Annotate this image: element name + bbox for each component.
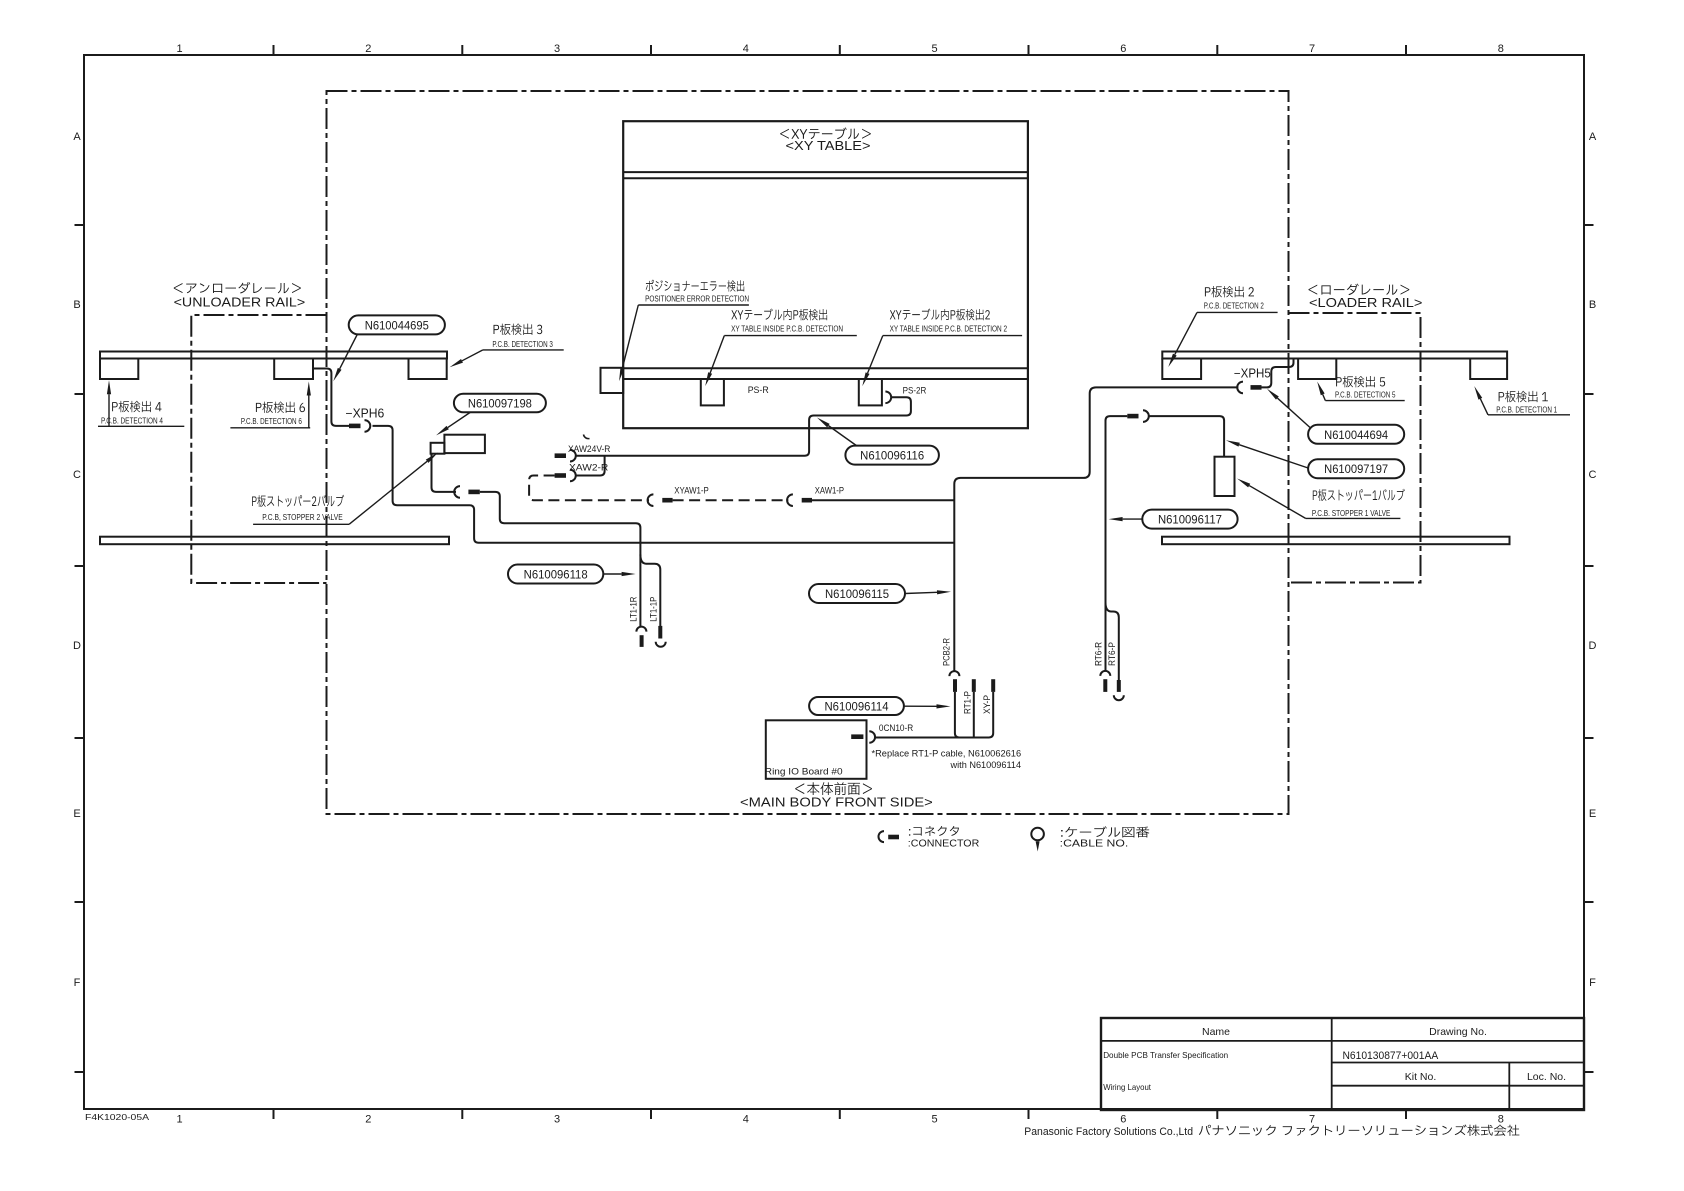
wire from detection-6 tab to connector XPH6 [313, 369, 349, 426]
svg-text:RT6-P: RT6-P [1107, 642, 1117, 666]
svg-text:5: 5 [931, 43, 937, 55]
loader rail tab P.C.B. detection 5 [1298, 359, 1336, 380]
connector RT6 socket arc [1143, 410, 1149, 422]
wire RT1-P [973, 692, 975, 738]
svg-text::CABLE NO.: :CABLE NO. [1060, 838, 1129, 849]
svg-text:RT6-R: RT6-R [1094, 642, 1104, 666]
cable label N610044694 [1308, 425, 1404, 444]
svg-text:LT1-1P: LT1-1P [649, 597, 659, 622]
label loader rail japanese [1308, 284, 1409, 295]
svg-text:XY-P: XY-P [982, 695, 992, 714]
leader N610096118 [603, 573, 621, 575]
svg-text:XYAW1-P: XYAW1-P [674, 485, 709, 495]
svg-text:XY TABLE INSIDE P.C.B. DETECTI: XY TABLE INSIDE P.C.B. DETECTION 2 [890, 325, 1008, 334]
svg-text:PS-2R: PS-2R [903, 386, 927, 396]
unloader rail tab P.C.B. detection 6 [274, 359, 313, 380]
connector RT6-R pin bar [1103, 679, 1107, 692]
wire XPH5 run to PCB2-R vertical [954, 387, 1238, 671]
svg-text:N610044694: N610044694 [1324, 428, 1388, 442]
connector XYAW1-P socket arc [648, 494, 654, 506]
XY table left sensor block [601, 368, 624, 393]
label LT1-1P [649, 597, 659, 622]
svg-text:<XY TABLE>: <XY TABLE> [786, 139, 871, 153]
label positioner error detection [619, 280, 749, 381]
unloader rail chain-line sub-box [191, 315, 326, 583]
svg-text:XAW1-P: XAW1-P [815, 485, 844, 495]
svg-text:C: C [73, 469, 81, 481]
svg-text:N610097198: N610097198 [468, 397, 532, 411]
svg-text::CONNECTOR: :CONNECTOR [908, 838, 980, 849]
svg-text:P.C.B. DETECTION 1: P.C.B. DETECTION 1 [1496, 405, 1557, 414]
connector PS-2R socket arc [885, 392, 891, 404]
label P.C.B. detection 6 [230, 382, 311, 428]
legend cable no. symbol [1031, 828, 1044, 852]
XY table inner double line [623, 171, 1028, 173]
leader N610096114 [904, 705, 937, 707]
svg-text:P.C.B. DETECTION 2: P.C.B. DETECTION 2 [1204, 301, 1264, 310]
svg-text:P.C.B. DETECTION 6: P.C.B. DETECTION 6 [241, 417, 302, 426]
svg-text:with N610096114: with N610096114 [950, 760, 1022, 771]
wire XPH6 to long bus [373, 426, 955, 543]
dashed cable XYAW1-P to XAW1-P [673, 499, 789, 501]
XY table lower rail lines [623, 367, 1028, 369]
leader N610097198 [448, 413, 470, 428]
connector XAW1-P socket arc [787, 494, 793, 506]
label P.C.B. detection 4 [98, 380, 184, 426]
svg-text:0CN10-R: 0CN10-R [879, 723, 914, 733]
svg-text:P.C.B. DETECTION 4: P.C.B. DETECTION 4 [101, 417, 163, 426]
sensor tab PS-2R [859, 379, 882, 405]
svg-text:<MAIN BODY FRONT SIDE>: <MAIN BODY FRONT SIDE> [740, 795, 933, 810]
svg-text:Ring IO Board #0: Ring IO Board #0 [765, 767, 843, 778]
svg-text:3: 3 [554, 43, 560, 55]
svg-text:N610096115: N610096115 [825, 587, 889, 601]
column ticks and numbers [176, 43, 1503, 1126]
svg-text:Panasonic Factory Solutions Co: Panasonic Factory Solutions Co.,Ltd [1024, 1126, 1193, 1138]
svg-text:LT1-1R: LT1-1R [629, 596, 639, 621]
leader N610096116 [828, 426, 857, 446]
svg-text:N610130877+001AA: N610130877+001AA [1343, 1050, 1439, 1062]
svg-text:Loc. No.: Loc. No. [1527, 1071, 1566, 1083]
svg-text:1: 1 [176, 43, 182, 55]
connector RT1-P pin bar [972, 679, 976, 692]
svg-text:Name: Name [1202, 1026, 1230, 1038]
leader N610097197 [1239, 445, 1308, 468]
dashed cable XAW2-R elbow [529, 476, 649, 501]
legend connector symbol [879, 831, 899, 842]
connector RT6-P pin bar [1117, 680, 1121, 692]
label P.C.B. detection 5 [1317, 376, 1405, 401]
svg-text:Kit No.: Kit No. [1405, 1071, 1437, 1083]
svg-text:POSITIONER ERROR DETECTION: POSITIONER ERROR DETECTION [645, 295, 749, 304]
label RT6-R [1094, 642, 1104, 666]
wire XPH5 pin to loader rail [1262, 359, 1294, 388]
svg-text:XY TABLE INSIDE P.C.B. DETECTI: XY TABLE INSIDE P.C.B. DETECTION [731, 325, 843, 334]
svg-text:−XPH6: −XPH6 [346, 406, 385, 420]
wire XAW1-P to PCB2-R bus [812, 499, 954, 501]
svg-text:P.C.B. STOPPER 1 VALVE: P.C.B. STOPPER 1 VALVE [1312, 509, 1391, 518]
drawing frame border [84, 55, 1584, 1109]
label LT1-1R [629, 596, 639, 621]
cable label N610044695 [349, 315, 445, 334]
label PCB2-R [942, 638, 952, 666]
connector XAW24V-R pin bar [555, 453, 566, 458]
svg-text:E: E [1589, 808, 1596, 820]
svg-text:P.C.B, STOPPER 2 VALVE: P.C.B, STOPPER 2 VALVE [262, 513, 343, 522]
svg-text:XAW24V-R: XAW24V-R [568, 444, 611, 454]
valve N610097198 body [444, 435, 485, 453]
label P.C.B. detection 2 [1168, 286, 1277, 367]
svg-text:C: C [1589, 469, 1597, 481]
cable label N610096115 [809, 584, 905, 603]
leader N610044695 [340, 333, 358, 369]
label P.C.B. detection 3 [450, 324, 564, 368]
loader rail tab P.C.B. detection 1 [1470, 359, 1507, 380]
label main body front side japanese [795, 782, 872, 795]
svg-text:D: D [1589, 640, 1597, 652]
loader rail chain-line sub-box [1289, 313, 1421, 583]
unloader rail tab P.C.B. detection 4 [100, 359, 138, 380]
svg-text:3: 3 [554, 1114, 560, 1126]
connector LT1-1R pin bar [640, 635, 644, 647]
cable label N610096118 [508, 565, 603, 584]
svg-text:<LOADER RAIL>: <LOADER RAIL> [1309, 295, 1422, 310]
connector XAW2-R socket arc [570, 470, 576, 482]
wire branch LT1-1P [640, 555, 660, 627]
connector pin bar (valve2 wire) [468, 490, 479, 495]
svg-text:1: 1 [176, 1114, 182, 1126]
loader lower rail bar [1162, 537, 1510, 545]
connector PCB2-R pin bar [953, 679, 957, 692]
unloader rail bar [100, 352, 447, 359]
svg-text:A: A [1589, 131, 1597, 143]
label P.C.B. detection 1 [1474, 386, 1570, 415]
wire RT6-R [1106, 416, 1128, 671]
loader rail bar [1162, 352, 1507, 359]
label RT6-P [1107, 642, 1117, 666]
connector LT1-1P socket arc [656, 642, 666, 647]
cable label N610096114 [809, 697, 904, 715]
svg-text:B: B [1589, 299, 1596, 311]
XY table box [623, 121, 1028, 428]
wire XAW24V-R to XY table PS-2R [576, 397, 911, 455]
svg-text:P.C.B. DETECTION 5: P.C.B. DETECTION 5 [1335, 391, 1396, 400]
svg-text:4: 4 [743, 43, 749, 55]
cable label N610096116 [845, 446, 939, 465]
leader N610096115 [905, 592, 937, 593]
label XY table inside P.C.B. detection [705, 309, 857, 387]
svg-text:PS-R: PS-R [748, 385, 769, 395]
svg-text:F: F [1589, 977, 1596, 989]
svg-text:8: 8 [1498, 1114, 1504, 1126]
svg-text:F: F [74, 977, 81, 989]
unloader rail tab P.C.B. detection 3 [409, 359, 447, 380]
legend cable no. japanese [1061, 826, 1149, 837]
label XY table inside P.C.B. detection 2 [862, 309, 1022, 387]
svg-text:<UNLOADER RAIL>: <UNLOADER RAIL> [174, 295, 306, 310]
wire to LT1 connectors [480, 492, 641, 627]
svg-text:PCB2-R: PCB2-R [942, 638, 952, 666]
connector XAW24V-R socket arc [570, 450, 576, 462]
wire valve2 to connector [432, 454, 457, 492]
label P.C.B. stopper 2 valve [252, 453, 438, 525]
svg-text:RT1-P: RT1-P [963, 691, 973, 714]
connector XPH6 pin bar [349, 424, 361, 429]
svg-text:8: 8 [1498, 43, 1504, 55]
title block [1101, 1018, 1584, 1110]
main body chain-line boundary box [327, 91, 1289, 814]
Ring IO Board box [766, 720, 867, 779]
svg-text:2: 2 [365, 43, 371, 55]
wire branch RT6-P [1106, 603, 1119, 681]
svg-text:N610097197: N610097197 [1324, 462, 1388, 476]
leader N610044694 [1277, 398, 1310, 427]
cable label N610097198 [454, 394, 546, 413]
svg-text:6: 6 [1120, 43, 1126, 55]
valve N610097198 left tab [431, 443, 445, 454]
connector 0CN10-R socket arc [869, 731, 875, 743]
svg-text:Double PCB Transfer Specificat: Double PCB Transfer Specification [1103, 1050, 1228, 1060]
svg-text:P.C.B. DETECTION 3: P.C.B. DETECTION 3 [492, 340, 553, 349]
svg-text:5: 5 [931, 1114, 937, 1126]
connector XY-P pin bar [991, 679, 995, 692]
svg-text:4: 4 [743, 1114, 749, 1126]
row ticks and letters [73, 131, 1597, 1072]
leader N610096117 [1123, 518, 1143, 520]
unloader lower rail bar [100, 537, 449, 545]
svg-text:7: 7 [1309, 1114, 1315, 1126]
loader rail tab P.C.B. detection 2 [1162, 359, 1201, 380]
cable label N610097197 [1308, 459, 1404, 478]
svg-text:N610096117: N610096117 [1158, 513, 1222, 527]
svg-text:Drawing No.: Drawing No. [1429, 1026, 1487, 1038]
label unloader rail japanese [174, 282, 301, 293]
connector XPH5 pin bar [1251, 385, 1262, 390]
svg-text:N610096116: N610096116 [860, 449, 924, 463]
svg-text:D: D [73, 640, 81, 652]
svg-text:N610096114: N610096114 [825, 699, 889, 713]
connector LT1-1R socket arc [636, 627, 646, 632]
connector XAW1-P pin bar [802, 498, 812, 503]
label XY-P [982, 695, 992, 714]
connector socket arc (valve2 wire) [454, 486, 460, 498]
legend connector japanese [909, 826, 959, 836]
wire RT6 arc to valve1 [1149, 416, 1224, 457]
svg-text:F4K1020-05A: F4K1020-05A [85, 1112, 149, 1122]
svg-text:7: 7 [1309, 43, 1315, 55]
svg-text:6: 6 [1120, 1114, 1126, 1126]
svg-text:−XPH5: −XPH5 [1234, 367, 1271, 381]
valve N610097197 body [1215, 457, 1235, 496]
connector XYAW1-P pin bar [662, 498, 672, 503]
svg-text:XAW2-R: XAW2-R [569, 463, 609, 473]
svg-text:Wiring Layout: Wiring Layout [1103, 1082, 1151, 1092]
label P.C.B. stopper 1 valve [1237, 479, 1405, 519]
svg-text:A: A [73, 131, 81, 143]
connector XAW2-R pin bar [555, 473, 566, 478]
wire XAW2-R junction [576, 456, 605, 476]
connector RT6-R socket arc [1100, 671, 1110, 676]
sensor tab PS-R [701, 379, 724, 405]
svg-text:2: 2 [365, 1114, 371, 1126]
svg-text:B: B [73, 299, 80, 311]
connector 0CN10-R pin bar [851, 734, 863, 739]
svg-text:*Replace RT1-P cable, N6100626: *Replace RT1-P cable, N610062616 [872, 749, 1022, 760]
label RT1-P [963, 691, 973, 714]
connector XPH5 socket arc [1237, 382, 1243, 394]
svg-text:N610044695: N610044695 [365, 318, 429, 332]
cable label N610096117 [1142, 510, 1237, 529]
XY table title japanese [780, 127, 871, 139]
svg-text:E: E [73, 808, 80, 820]
connector XPH6 socket arc [365, 420, 371, 432]
connector PCB2-R socket arc [949, 671, 959, 676]
connector RT6 pin bar [1127, 414, 1138, 419]
wire 0CN10-R bus [875, 692, 994, 738]
connector RT6-P socket arc [1114, 695, 1124, 700]
wire PCB2-R pin to 0CN10-R bus [955, 692, 960, 738]
connector LT1-1P pin bar [658, 626, 662, 639]
small leader arc above XAW24V-R [584, 435, 590, 439]
svg-text:N610096118: N610096118 [524, 567, 588, 581]
